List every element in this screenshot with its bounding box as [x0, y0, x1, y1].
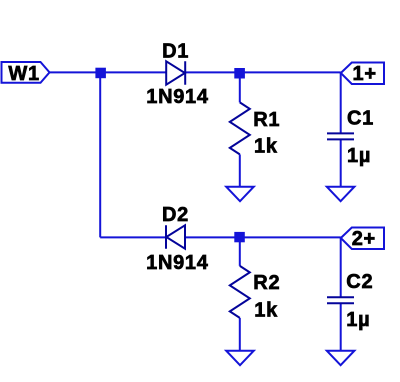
svg-text:C1: C1 [347, 108, 374, 130]
svg-text:1k: 1k [254, 136, 278, 158]
svg-text:D1: D1 [162, 40, 189, 62]
svg-text:R2: R2 [253, 272, 280, 294]
svg-text:1µ: 1µ [346, 309, 370, 331]
svg-text:1N914: 1N914 [146, 252, 209, 274]
svg-text:D2: D2 [162, 204, 189, 226]
svg-text:1+: 1+ [353, 63, 377, 85]
svg-text:R1: R1 [253, 109, 280, 131]
svg-text:2+: 2+ [352, 228, 376, 250]
svg-text:C2: C2 [346, 271, 373, 293]
svg-text:1µ: 1µ [347, 145, 371, 167]
svg-text:1k: 1k [254, 300, 278, 322]
svg-text:W1: W1 [8, 63, 39, 85]
svg-text:1N914: 1N914 [146, 86, 209, 108]
